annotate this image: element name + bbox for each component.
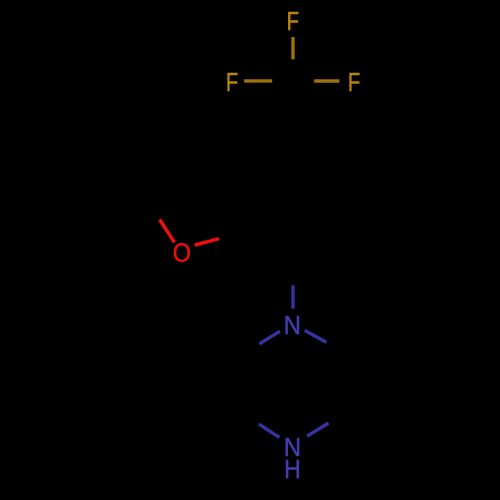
bond C3-C2 xyxy=(147,153,183,202)
bond N1-C7 half, blue xyxy=(291,286,294,309)
bond N1-C6' half, blue xyxy=(305,330,327,342)
bond C3a-C3 xyxy=(183,153,241,172)
bond C3a-C4 xyxy=(240,142,292,172)
bond C4-C5 xyxy=(293,142,345,172)
bond C(CF3)-C4 xyxy=(291,81,294,142)
svg-text:H: H xyxy=(284,456,301,485)
bond F(right)-C half, gold xyxy=(314,79,339,82)
bond O-C2 half, red xyxy=(160,219,175,242)
bond C7a-C3a xyxy=(239,172,242,232)
svg-text:F: F xyxy=(348,68,360,97)
svg-text:F: F xyxy=(287,7,299,36)
bond F(top)-C half, gold xyxy=(291,37,294,59)
bond C7-N1 carbon half xyxy=(291,263,294,286)
bond C7a-O carbon half xyxy=(219,232,240,238)
bond C6'-C5' xyxy=(344,356,347,417)
svg-text:O: O xyxy=(173,239,191,267)
bond N1-C2' carbon half xyxy=(240,344,259,356)
bond C7-C7a xyxy=(240,232,292,262)
bond N2-C5' half, blue xyxy=(307,423,329,436)
bond N1-C2' half, blue xyxy=(259,331,280,344)
bond F(left)-C half, gold xyxy=(244,79,272,82)
svg-text:N: N xyxy=(284,311,301,340)
bond C(CF3)-Ftop carbon half xyxy=(291,59,294,81)
bond C(CF3)-Fright carbon half xyxy=(293,79,314,83)
bond C3'-N2 carbon half xyxy=(240,416,259,424)
bond C6-C7 xyxy=(293,232,345,262)
bond O-C7a half, red xyxy=(195,239,220,246)
bond C2'-C3' xyxy=(239,356,242,417)
bond N2-C3' half, blue xyxy=(259,424,279,437)
svg-text:F: F xyxy=(226,68,238,97)
bond C5-C6 xyxy=(344,172,347,232)
bond C(CF3)-Fleft carbon half xyxy=(272,79,293,83)
bond C2-O carbon half xyxy=(147,202,159,219)
bond N1-C6' carbon half xyxy=(326,342,345,355)
bond C5'-N2 carbon half xyxy=(329,416,346,423)
